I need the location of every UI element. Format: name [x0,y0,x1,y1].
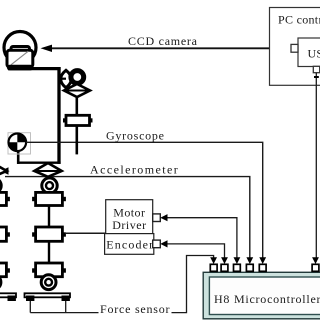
arrowhead into pin1 [210,257,217,264]
link3 left tab [32,268,36,272]
lens midline tick [59,78,66,80]
wire knee to motor driver [66,232,106,234]
pin 1 [210,264,217,271]
link1 left tab [32,197,36,201]
arrowhead into pin5 [259,257,266,264]
arm link right tab [90,118,93,122]
Encoder box [105,234,154,255]
left leg link3 [0,263,6,277]
right foot right pad [62,296,70,302]
pin 6 [312,264,319,271]
right foot bar [25,293,71,297]
pin 4 [246,264,253,271]
svg-text:Gyroscope: Gyroscope [106,129,165,143]
wire accelerometer line [5,177,250,262]
torso right line [57,67,60,164]
arm link rect [66,115,90,125]
wire gyroscope line [26,142,263,262]
wire CCD camera line [44,47,286,49]
svg-text:Encoder: Encoder [106,238,154,252]
svg-text:Driver: Driver [112,218,146,232]
left link3 tab [6,268,9,272]
torso left line [17,150,20,164]
left leg link2 [0,227,6,241]
CoM gray box [8,133,31,154]
shoulder diamond midline [64,90,90,92]
left link1 tab [6,197,9,201]
svg-text:CCD camera: CCD camera [128,34,198,48]
arrowhead into pin3 [234,257,241,264]
right leg ankle donut joint [41,275,56,290]
right leg link2 [36,227,63,241]
pin 5 [259,264,266,271]
arm link left tab [63,118,66,122]
H8 outer box [203,272,320,319]
arrowhead into encoder tab [160,240,167,247]
USB bottom tab [313,66,319,72]
right leg line2 [48,241,50,263]
wire motor driver to pin3 [166,218,237,262]
wire force sensor bracket left [29,301,31,313]
svg-text:Force sensor: Force sensor [100,302,170,316]
tick on USB wire [314,76,319,78]
right leg diamond joint [34,163,61,177]
arm lower line [76,126,79,155]
right foot left pad [26,296,34,302]
arrowhead into motor driver tab [160,214,167,221]
shoulder line [8,67,61,70]
left leg ankle donut joint [0,275,1,290]
arrowhead into pin4 [246,257,253,264]
camera lens top rect [11,47,30,55]
shoulder ring joint [71,71,84,84]
svg-text:Accelerometer: Accelerometer [90,163,179,177]
arrowhead into pin6 [312,257,319,264]
left leg link1 [0,192,6,205]
wire encoder to pin2 [166,244,225,262]
svg-text:USB: USB [308,47,320,61]
center of mass symbol [8,134,26,152]
arrowhead into pin2 [221,257,228,264]
link1 right tab [62,197,66,201]
left leg hip donut joint [0,178,1,193]
arrowhead into USB tab [284,45,291,52]
link2 left tab [32,232,36,236]
arm upper line [76,97,79,116]
svg-text:H8 Microcontrollers: H8 Microcontrollers [214,292,320,306]
wire force sensor line [30,256,213,313]
pin 3 [234,264,241,271]
right leg diamond midline [34,170,61,172]
left link2 tab [6,232,9,236]
arrowhead at head [41,45,53,52]
shoulder diamond joint [64,84,90,97]
svg-text:PC control: PC control [278,13,320,27]
right leg hip donut joint [42,178,57,193]
link2 right tab [62,232,66,236]
wire force sensor bracket right [65,301,67,313]
wire USB to pin6 [315,73,317,262]
left leg diamond joint [0,163,7,177]
hip line [17,161,61,163]
left foot pad [8,296,16,302]
Encoder right tab [153,240,161,248]
Motor Driver right tab [153,214,161,222]
accelerometer arrowhead [1,167,9,175]
left foot bar [0,293,16,297]
camera base bar [7,65,33,71]
right leg link1 [36,192,63,205]
right leg line1 [48,206,50,228]
head circle [4,32,36,64]
H8 inner box [209,277,320,315]
USB left tab [291,44,298,52]
link3 right tab [62,268,66,272]
camera body [7,50,33,67]
right leg link3 [36,263,63,277]
camera highlight diagonal [11,51,28,65]
label Force sensor [99,306,172,316]
USB box [298,38,320,67]
Motor Driver box [106,200,153,234]
PC control box [270,8,320,86]
pin 2 [221,264,228,271]
shoulder lens joint [61,70,72,88]
